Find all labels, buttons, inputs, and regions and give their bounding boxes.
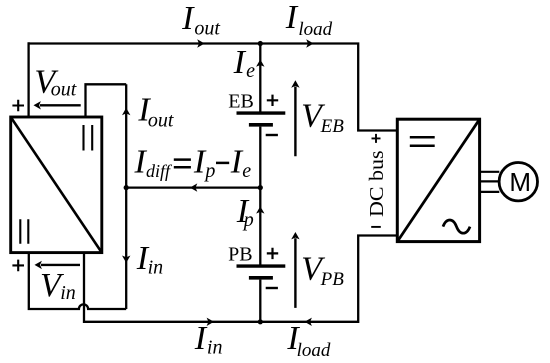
battery EB positive plate [237,111,286,114]
wire left vertical from top rail to converter top [27,42,29,118]
label converter plus top [12,100,24,112]
svg-text:in: in [148,257,164,279]
wire motor 3-phase lines [480,172,500,192]
label VPB [301,251,344,291]
battery PB positive plate [237,264,286,267]
inverter U2 (DC/AC) body [397,119,479,241]
svg-text:PB: PB [320,269,345,290]
svg-text:I: I [194,320,208,357]
wire battery bus top segment [259,44,261,112]
wire battery bus bottom segment [259,280,261,322]
label Idiff equation [134,144,252,183]
label EB plus [267,95,278,106]
svg-text:EB: EB [320,116,345,137]
label PB plus [267,248,278,259]
arrow Vin shaft and head [41,264,80,266]
converter U1 DC marks bottom-left [20,219,28,244]
label DC bus minus [371,226,381,228]
wire Idiff horizontal [126,186,260,188]
junction node bottom rail / battery bus [258,319,263,324]
label Ie battery bus [233,44,256,82]
svg-text:out: out [51,78,77,100]
arrow Idiff left [190,183,197,191]
converter U1 (DC/DC) body [11,117,102,253]
battery EB negative plate [249,123,273,127]
wire battery bus middle segment [259,127,261,265]
svg-text:I: I [233,44,247,81]
arrow Iin bottom rail right [207,318,214,326]
arrow Iload top rail [306,39,313,47]
svg-text:out: out [148,109,174,131]
label VEB [301,98,344,138]
label Iout top rail [181,0,220,40]
label Vout [34,64,76,101]
inverter U2 DC symbol = [410,137,435,146]
label Iload top rail [285,0,333,40]
battery PB negative plate [249,276,273,280]
converter U1 diagonal [11,117,102,253]
label DC bus plus [372,134,381,143]
inverter U2 AC symbol ~ [443,220,470,233]
svg-text:M: M [509,167,531,197]
converter U1 DC marks top-right [84,125,93,151]
arrow Ip up [256,206,264,213]
label converter plus bottom [12,260,24,272]
svg-text:PB: PB [228,243,252,265]
arrow Ie up [256,59,264,66]
arrow Iout left wire up [122,108,130,115]
label Iload bottom rail [286,320,330,361]
arrow Vout shaft and head [40,104,81,106]
svg-text:diff: diff [146,161,173,181]
arrow Iload bottom rail left [305,318,312,326]
svg-text:in: in [207,337,223,359]
svg-text:DC bus: DC bus [366,150,388,217]
arrow VEB shaft and head [294,87,296,157]
label EB minus [266,134,278,136]
svg-text:e: e [246,60,255,82]
arrow VPB shaft and head [294,238,296,308]
label Vin [40,267,76,304]
label Ip battery bus [236,193,254,231]
inverter U2 diagonal [397,119,479,241]
svg-text:load: load [297,340,331,361]
junction node top rail / battery bus [258,41,263,46]
label Iin left wire [136,240,163,279]
label Iin bottom rail [194,320,223,359]
wire converter minus terminal + bottom rail + inverter riser [84,236,397,322]
arrow Iout top rail [197,39,204,47]
arrow Iin left wire down [122,256,130,263]
svg-text:in: in [60,282,76,304]
svg-text:out: out [194,18,220,40]
wire x=126 vertical Iout/Iin branch [125,84,127,309]
svg-text:I: I [181,0,195,37]
junction node Idiff right [258,185,263,190]
label Iout left wire [137,91,174,131]
label PB minus [266,287,278,289]
svg-text:p: p [242,209,254,231]
junction node Idiff left [124,185,129,190]
svg-text:EB: EB [228,90,254,112]
svg-text:e: e [242,160,251,182]
motor M1 circle [499,163,537,201]
wire Vout loop right stub [86,84,127,118]
svg-text:load: load [298,19,332,40]
svg-text:p: p [203,160,215,182]
wire top rail to inverter top terminal [29,44,397,131]
wire Vin loop with hop over minus wire [29,252,126,310]
svg-text:I: I [285,0,299,36]
